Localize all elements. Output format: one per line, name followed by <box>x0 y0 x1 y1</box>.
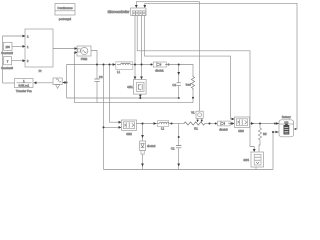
node dot bus gb2a <box>109 64 111 66</box>
svg-text:PI: PI <box>39 69 42 73</box>
node dot rail C2 <box>178 97 180 99</box>
node dot C1 mid <box>178 136 180 138</box>
svg-text:GB4: GB4 <box>243 158 249 162</box>
voltage measurement V1 <box>191 110 203 122</box>
wire feedback to PI input 1 <box>3 36 23 83</box>
node dot diode2 top <box>142 123 144 125</box>
Microcontroller U1 <box>108 8 146 16</box>
wire sensor to Transfer Fcn <box>37 82 53 84</box>
arrow diode2 upper <box>141 135 144 138</box>
svg-text:Battery: Battery <box>282 115 291 119</box>
svg-text:0.001 s+1: 0.001 s+1 <box>19 84 30 87</box>
svg-text:Microcontroller: Microcontroller <box>108 10 131 14</box>
IGBT GB3 <box>235 117 250 133</box>
wire source output to bus <box>91 51 97 65</box>
wire diode3 to GB3 <box>228 123 232 125</box>
wire battery minus to bottom bus <box>273 132 279 170</box>
svg-text:diode3: diode3 <box>219 128 228 132</box>
arrow diode2 lower <box>141 164 144 167</box>
wire GB3 output to battery <box>250 123 280 125</box>
resistor R5 (vertical) <box>258 124 267 153</box>
IGBT GB1 <box>127 80 146 95</box>
svg-text:load: load <box>186 83 192 87</box>
svg-text:V1: V1 <box>191 110 195 114</box>
capacitor C1 branch <box>171 124 181 170</box>
gate wire micro pin2 to GB1 <box>141 16 143 77</box>
diode D2 branch (vertical) <box>140 124 156 170</box>
arrow into source input <box>75 47 78 50</box>
resistor load (vertical) <box>186 75 195 91</box>
wire battery m to microcontroller top <box>145 3 297 129</box>
capacitor C2 branch <box>172 65 180 99</box>
inductor L2 <box>158 121 169 131</box>
sensor block (thermal tap) <box>53 78 62 88</box>
svg-text:Constant2: Constant2 <box>1 51 13 55</box>
node dot bus C2 <box>178 64 180 66</box>
gate wire micro pin3 to GB4 <box>137 16 254 150</box>
svg-text:3: 3 <box>27 59 29 63</box>
arrow PI input 1 <box>23 35 26 38</box>
gate feed GB2 upper <box>110 65 119 123</box>
svg-text:C2: C2 <box>172 83 176 87</box>
svg-text:1: 1 <box>23 79 25 83</box>
diode D1 <box>150 62 169 73</box>
arrow GB3 lower input <box>232 122 235 125</box>
PI controller block <box>25 29 53 73</box>
svg-text:298: 298 <box>6 45 11 49</box>
svg-text:diode1: diode1 <box>155 69 164 73</box>
wire battery plus <box>275 123 277 125</box>
svg-text:C1: C1 <box>171 147 175 151</box>
arrow PI input 3 <box>23 59 26 62</box>
node dot load rail crossing <box>192 97 194 99</box>
svg-text:L2: L2 <box>161 126 165 130</box>
arrow battery minus <box>276 131 279 134</box>
arrow into sensor right <box>62 81 65 84</box>
wire PI output to source input <box>53 48 75 50</box>
diode D3 <box>215 121 233 131</box>
node dot bus C3 <box>96 64 98 66</box>
svg-text:PWM: PWM <box>81 57 87 61</box>
arrow after GB3 <box>251 122 254 125</box>
capacitor C3 branch <box>94 65 103 103</box>
arrow C1 lower <box>177 164 180 167</box>
node dot sensor tap <box>66 82 68 84</box>
svg-text:Transfer Fcn: Transfer Fcn <box>16 89 32 93</box>
arrow into microcontroller input 2 <box>143 5 146 8</box>
node dot battery minus <box>272 131 274 133</box>
arrow into microcontroller input 1 <box>135 5 138 8</box>
svg-text:L1: L1 <box>117 70 121 74</box>
constant block Constant3 <box>1 57 13 70</box>
left return wire A <box>66 65 68 99</box>
svg-text:diode2: diode2 <box>147 144 156 148</box>
constant block Constant2 <box>1 42 13 55</box>
lower rail 2 <box>74 102 193 104</box>
controlled source block (PWM circle) <box>77 46 91 61</box>
svg-text:T: T <box>7 59 9 63</box>
arrow battery plus <box>276 122 279 125</box>
svg-text:GB2: GB2 <box>126 132 132 136</box>
svg-text:2: 2 <box>27 35 29 39</box>
svg-text:Continuous: Continuous <box>57 6 73 10</box>
arrow before L1 <box>113 63 116 66</box>
gate wire micro pin4 to GB3 <box>144 16 231 120</box>
arrow PI input 2 <box>23 45 26 48</box>
node dot bus return tap <box>103 64 105 66</box>
svg-text:C3: C3 <box>99 75 103 79</box>
arrow C2 top <box>177 72 180 75</box>
inductor L1 <box>116 62 133 74</box>
wire Constant2 to PI input <box>12 45 23 47</box>
wire node to sensor <box>64 82 66 84</box>
Transfer Fcn block <box>15 79 34 94</box>
gate wire micro pin1 to GB1 <box>134 16 136 77</box>
wire L2 to resistor <box>169 123 184 125</box>
node dot after resistor <box>209 123 211 125</box>
svg-text:1: 1 <box>27 45 29 49</box>
wire source lower terminal to rail <box>74 53 77 103</box>
IGBT GB4 <box>243 152 263 167</box>
svg-text:GB1: GB1 <box>127 85 133 89</box>
lower rail 1 <box>67 97 179 99</box>
svg-text:powergui: powergui <box>59 17 72 21</box>
wire Transfer Fcn output to feedback line <box>3 82 15 84</box>
IGBT GB2 <box>122 120 137 136</box>
arrow GB2 lower input <box>119 126 122 129</box>
node dot GB1 rail <box>139 97 141 99</box>
svg-text:GB3: GB3 <box>238 129 244 133</box>
svg-text:R1: R1 <box>194 127 198 131</box>
arrow after L2 <box>154 122 157 125</box>
node dot bus g1 <box>134 64 136 66</box>
top bus wire after L1 <box>133 64 153 66</box>
wire feedback V1 to microcontroller top <box>136 2 199 112</box>
node dot battery branch <box>274 123 276 125</box>
node dot bus g2 <box>141 64 143 66</box>
arrow GB1 gate 2 <box>140 77 143 80</box>
arrow GB4 gate <box>253 149 256 152</box>
node dot after L2 <box>171 123 173 125</box>
return line through GB2 tap <box>103 65 105 170</box>
arrow into Transfer Fcn right <box>34 81 37 84</box>
arrow GB3 upper input <box>232 118 235 121</box>
wire Constant3 to PI input <box>12 60 23 62</box>
wire GB4 emitter to bottom bus <box>255 167 257 170</box>
wire resistor to diode3 <box>205 123 217 125</box>
battery <box>279 115 294 137</box>
wire GB2 output <box>137 123 160 125</box>
svg-text:Constant3: Constant3 <box>1 66 13 70</box>
arrow GB2 upper input <box>119 121 122 124</box>
arrow GB1 gate 1 <box>134 77 137 80</box>
wire load to lower rail <box>192 91 194 103</box>
svg-text:R5: R5 <box>263 132 267 136</box>
resistor R1 (horizontal) <box>184 122 205 131</box>
node dot m <box>295 128 297 130</box>
top DC bus wire <box>67 64 116 66</box>
node dot R5 tap <box>259 123 261 125</box>
wire GB1 emitter to rail <box>139 94 141 98</box>
wire diode1 to load corner <box>165 65 193 76</box>
arrow source lower input <box>75 51 78 54</box>
bottom return bus <box>104 169 274 171</box>
powergui block <box>55 4 75 22</box>
